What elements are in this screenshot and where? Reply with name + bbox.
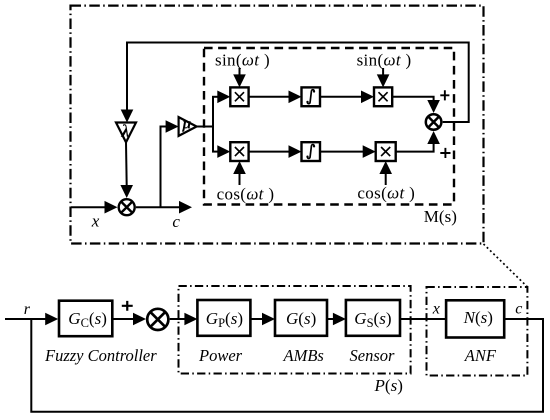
summer S2 (circle with X) xyxy=(426,114,442,130)
svg-text:Power: Power xyxy=(198,346,243,365)
svg-text:c: c xyxy=(172,212,180,231)
wire: I2 to B2 xyxy=(320,151,364,153)
svg-text:cos(ωt ): cos(ωt ) xyxy=(357,184,415,203)
wire: GS to N xyxy=(400,318,446,320)
wire: cos2 arrow into B2 xyxy=(385,174,387,186)
wire: mu output split xyxy=(197,126,213,128)
integrator box I2 xyxy=(302,142,321,161)
outer dash-dot box (ANF expansion) xyxy=(71,6,484,244)
svg-text:x: x xyxy=(432,301,440,318)
wire: M1 output to c xyxy=(136,206,180,208)
svg-text:GS(s): GS(s) xyxy=(354,309,391,330)
svg-text:GP(s): GP(s) xyxy=(206,309,243,330)
svg-text:r: r xyxy=(24,301,31,318)
wire: GC to S1 xyxy=(112,318,135,320)
wire: lambda to M1 xyxy=(125,142,128,186)
wire: S1 to GP xyxy=(170,318,185,320)
wire: x input xyxy=(71,206,106,208)
wire: split vertical xyxy=(212,97,214,152)
plus sign bottom xyxy=(440,148,450,158)
multiplier box A2 xyxy=(374,87,392,106)
svg-text:x: x xyxy=(91,212,100,231)
wire: sin2 arrow into A2 xyxy=(382,68,384,76)
wire: sin1 arrow into A1 xyxy=(239,68,241,76)
svg-text:ANF: ANF xyxy=(464,346,497,365)
P(s) dash-dot box xyxy=(179,286,411,374)
ANF dash-dot box xyxy=(427,287,528,376)
wire: N output and feedback xyxy=(31,319,543,412)
wire: GP to G xyxy=(250,318,263,320)
svg-text:M(s): M(s) xyxy=(424,207,457,226)
wire: B2 to summer S2 xyxy=(396,144,434,152)
wire: to top x box xyxy=(212,96,218,98)
wire: G to GS xyxy=(327,318,334,320)
block GS(s) xyxy=(346,300,400,336)
summer S1 (circle with X) xyxy=(147,309,168,330)
wire: I1 to A2 xyxy=(320,96,362,98)
block GC(s) xyxy=(59,301,112,337)
wire: cos1 arrow into B1 xyxy=(239,174,241,186)
dotted projection line xyxy=(484,244,528,287)
wire: r input xyxy=(5,318,46,320)
svg-text:AMBs: AMBs xyxy=(283,346,324,365)
svg-text:sin(ωt ): sin(ωt ) xyxy=(357,51,412,70)
block GP(s) xyxy=(197,300,250,336)
svg-text:sin(ωt ): sin(ωt ) xyxy=(215,51,270,70)
svg-text:Sensor: Sensor xyxy=(350,346,395,365)
gain amplifier mu (triangle) xyxy=(179,117,197,136)
integrator box I1 xyxy=(302,87,321,106)
gain amplifier lambda (triangle down) xyxy=(116,123,136,143)
svg-text:P(s): P(s) xyxy=(374,376,403,395)
svg-text:c: c xyxy=(515,301,522,318)
wire: B1 to I2 xyxy=(249,151,290,153)
svg-text:Fuzzy Controller: Fuzzy Controller xyxy=(44,346,157,365)
wire: S2 output feedback loop to lambda xyxy=(127,43,469,123)
wire: A2 to summer S2 xyxy=(392,97,433,101)
plus sign at S1 xyxy=(122,301,133,311)
wire: to bottom x box xyxy=(212,151,218,153)
svg-text:cos(ωt ): cos(ωt ) xyxy=(217,185,275,204)
svg-text:G(s): G(s) xyxy=(286,309,316,328)
multiplier box B1 xyxy=(230,142,248,161)
multiplier box A1 xyxy=(230,87,248,106)
wire: A1 to I1 xyxy=(249,96,290,98)
plus sign top xyxy=(440,90,449,100)
block G(s) xyxy=(275,300,327,336)
block N(s) xyxy=(446,300,504,337)
multiplier M1 (circle with X) xyxy=(119,199,135,215)
wire: branch up to gain mu xyxy=(161,127,167,208)
svg-text:N(s): N(s) xyxy=(463,308,493,327)
M(s) dashed box xyxy=(204,48,454,205)
multiplier box B2 xyxy=(376,142,396,161)
